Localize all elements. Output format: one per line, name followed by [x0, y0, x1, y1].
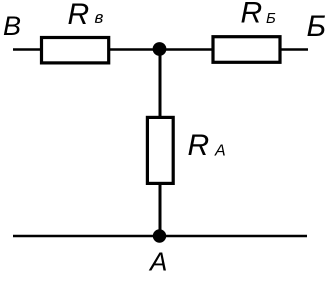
wire: top node down to RА [159, 49, 162, 118]
svg-text:В: В [3, 11, 21, 41]
wire: RБ output to right lead [280, 48, 308, 51]
svg-text:R: R [241, 0, 263, 29]
svg-text:А: А [148, 247, 167, 277]
resistor Rв (body rectangle) [42, 38, 109, 63]
svg-text:Б: Б [307, 10, 327, 43]
wire: bottom horizontal rail [13, 235, 307, 238]
wire: RА down to bottom node [159, 183, 162, 236]
wire: between Rв and RБ through top node [108, 48, 214, 51]
svg-text:R: R [68, 0, 90, 31]
junction node (top) [153, 42, 167, 56]
resistor RА (body rectangle) [147, 117, 173, 183]
wire: left lead to R_B input [13, 48, 43, 51]
svg-text:Б: Б [266, 10, 276, 27]
junction node A (bottom) [153, 229, 166, 242]
svg-text:А: А [214, 143, 226, 160]
svg-text:R: R [188, 129, 210, 162]
resistor RБ (body rectangle) [213, 37, 280, 63]
svg-text:в: в [95, 8, 104, 27]
